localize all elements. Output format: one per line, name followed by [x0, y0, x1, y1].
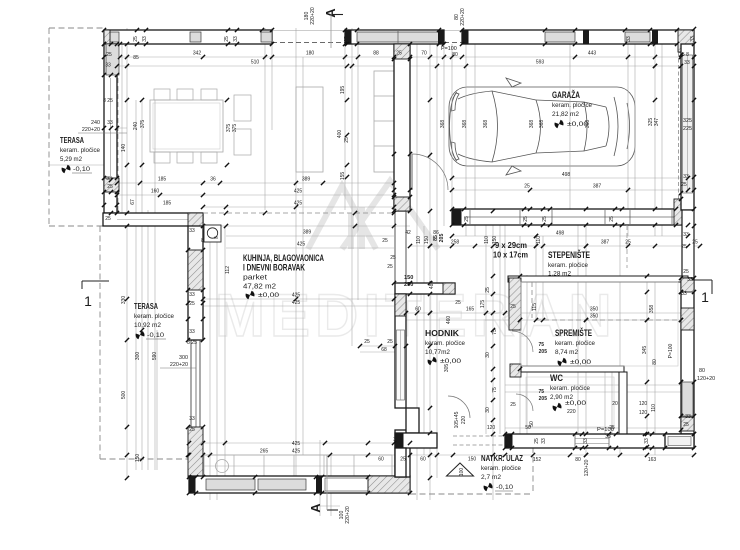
wc top wall	[521, 366, 624, 372]
svg-text:keram. pločice: keram. pločice	[425, 340, 465, 347]
svg-text:150: 150	[468, 457, 477, 463]
svg-text:HODNIK: HODNIK	[425, 328, 460, 338]
svg-text:25: 25	[224, 36, 230, 42]
svg-text:375: 375	[232, 124, 238, 133]
svg-text:25: 25	[189, 427, 195, 433]
svg-text:25: 25	[344, 36, 350, 42]
top wall segment 2 (window)	[345, 30, 444, 44]
svg-text:1,28 m2: 1,28 m2	[548, 271, 571, 278]
svg-text:110: 110	[651, 404, 657, 412]
svg-text:220+20: 220+20	[82, 127, 100, 133]
wc column	[510, 364, 521, 377]
wc door arc	[516, 394, 533, 411]
dashed terrace 1 outline	[49, 27, 104, 29]
svg-text:10,92 m2: 10,92 m2	[134, 322, 161, 329]
svg-text:25: 25	[692, 240, 698, 246]
svg-text:TERASA: TERASA	[60, 136, 84, 145]
sideboard	[296, 87, 323, 172]
svg-text:180: 180	[306, 51, 315, 57]
left wall lower hatched column	[188, 427, 203, 478]
dashed wall inner left	[117, 30, 119, 212]
svg-text:115: 115	[532, 303, 538, 311]
svg-text:keram. pločice: keram. pločice	[548, 262, 588, 269]
left exterior wall	[104, 44, 117, 213]
svg-text:25: 25	[510, 402, 516, 408]
svg-text:keram. pločice: keram. pločice	[60, 147, 100, 154]
garage bottom wall	[452, 209, 688, 225]
svg-text:110: 110	[536, 236, 542, 244]
dashed porch outline	[532, 447, 534, 494]
svg-text:110: 110	[484, 236, 490, 244]
svg-text:8 25: 8 25	[103, 98, 113, 104]
spremiste door arc	[512, 331, 533, 352]
door arc garage-hall	[411, 154, 413, 190]
svg-text:25: 25	[364, 339, 370, 345]
middle wall upper	[394, 44, 410, 211]
svg-text:25: 25	[609, 216, 615, 222]
svg-text:25: 25	[133, 36, 139, 42]
svg-text:220+20: 220+20	[460, 8, 466, 26]
svg-text:25: 25	[106, 52, 112, 58]
svg-text:±0,00: ±0,00	[440, 358, 461, 365]
svg-text:342: 342	[193, 51, 202, 57]
svg-text:70: 70	[421, 51, 427, 57]
svg-text:590: 590	[152, 352, 158, 361]
svg-text:150: 150	[424, 236, 430, 245]
mid lower wall	[395, 294, 406, 408]
car top view	[449, 78, 635, 175]
svg-text:33: 33	[189, 292, 195, 298]
svg-text:80: 80	[452, 52, 458, 58]
top-right corner column	[678, 30, 694, 52]
svg-text:25: 25	[390, 255, 396, 261]
svg-text:425: 425	[294, 189, 303, 195]
svg-text:75: 75	[538, 342, 544, 348]
svg-text:60: 60	[378, 457, 384, 463]
svg-text:21,82 m2: 21,82 m2	[552, 111, 579, 118]
svg-text:25: 25	[524, 184, 530, 190]
watermark logo	[308, 181, 438, 249]
svg-text:387: 387	[601, 240, 610, 246]
svg-text:±0,00: ±0,00	[570, 359, 591, 366]
dashed step line	[203, 212, 394, 214]
svg-text:25: 25	[510, 304, 516, 310]
svg-text:50: 50	[529, 421, 535, 427]
svg-text:593: 593	[536, 60, 545, 66]
svg-text:60: 60	[420, 457, 426, 463]
svg-text:80: 80	[699, 368, 705, 374]
right exterior wall (garage)	[681, 44, 694, 210]
svg-text:300: 300	[135, 352, 141, 361]
level symbol	[553, 118, 565, 130]
svg-text:keram. pločice: keram. pločice	[134, 313, 174, 320]
svg-text:425: 425	[297, 242, 306, 248]
svg-text:68: 68	[381, 347, 387, 353]
spremiste inner line	[521, 282, 678, 366]
svg-text:I DNEVNI BORAVAK: I DNEVNI BORAVAK	[243, 263, 305, 273]
kitchen pass opening thin	[394, 211, 396, 283]
svg-text:33: 33	[189, 416, 195, 422]
svg-text:9 x 29cm: 9 x 29cm	[495, 241, 527, 250]
svg-text:160: 160	[151, 189, 160, 195]
svg-text:460: 460	[446, 316, 452, 325]
level symbol	[244, 289, 256, 301]
level symbol	[60, 163, 72, 175]
svg-text:120: 120	[487, 425, 496, 431]
right wall stair segment	[682, 210, 694, 278]
wc right wall	[619, 372, 627, 434]
garage top wall	[462, 30, 694, 44]
svg-text:120+20: 120+20	[697, 376, 715, 382]
svg-text:110: 110	[416, 236, 422, 244]
svg-text:80: 80	[575, 457, 581, 463]
bottom wall right block	[368, 476, 410, 493]
svg-text:STEPENIŠTE: STEPENIŠTE	[548, 249, 590, 260]
svg-text:265: 265	[260, 449, 269, 455]
svg-text:300: 300	[179, 355, 188, 361]
svg-text:165: 165	[466, 307, 475, 313]
svg-text:400: 400	[337, 130, 343, 139]
level symbol	[556, 356, 568, 368]
svg-text:25: 25	[625, 240, 631, 246]
svg-text:33: 33	[316, 482, 322, 488]
entrance triangle	[447, 463, 474, 476]
hall bottom wall piece	[395, 433, 437, 448]
kitchen counter south	[204, 455, 392, 476]
svg-text:75: 75	[492, 329, 498, 335]
svg-text:33: 33	[685, 414, 691, 420]
svg-text:105+45: 105+45	[454, 411, 460, 428]
svg-text:75: 75	[538, 389, 544, 395]
right exterior wall lower	[681, 278, 694, 434]
step wall horizontal	[103, 213, 203, 226]
svg-text:330: 330	[121, 296, 127, 305]
sliding door thin lines	[190, 340, 192, 427]
svg-text:425: 425	[292, 300, 301, 306]
top-left corner column	[104, 30, 110, 44]
svg-text:250: 250	[404, 282, 413, 288]
bottom right riser wall	[395, 430, 410, 477]
svg-text:25: 25	[107, 184, 113, 190]
svg-text:425: 425	[292, 293, 301, 299]
svg-text:120: 120	[639, 410, 648, 416]
riser to bottom wall	[395, 448, 406, 477]
svg-text:P=100: P=100	[441, 46, 457, 52]
svg-text:±0,00: ±0,00	[567, 121, 588, 128]
svg-text:480: 480	[429, 281, 435, 290]
svg-text:33: 33	[690, 36, 696, 42]
bottom wall opening thin	[325, 478, 368, 491]
svg-text:389: 389	[303, 230, 312, 236]
svg-text:SPREMIŠTE: SPREMIŠTE	[555, 327, 592, 338]
dashed entry gap	[453, 435, 505, 437]
level symbol	[134, 329, 146, 341]
svg-text:NATKR. ULAZ: NATKR. ULAZ	[481, 453, 523, 463]
level symbol	[551, 401, 563, 413]
svg-text:150: 150	[135, 454, 141, 463]
svg-text:33: 33	[583, 438, 589, 444]
svg-text:120+20: 120+20	[584, 459, 590, 476]
svg-text:75: 75	[492, 387, 498, 393]
svg-text:33: 33	[106, 176, 112, 182]
svg-text:368: 368	[440, 120, 446, 129]
dashed opening top 2	[444, 42, 462, 44]
svg-text:368: 368	[539, 120, 545, 129]
svg-text:33: 33	[626, 36, 632, 42]
svg-text:25: 25	[485, 287, 491, 293]
svg-text:33: 33	[644, 438, 650, 444]
svg-text:358: 358	[649, 305, 655, 314]
svg-text:GARAŽA: GARAŽA	[552, 89, 580, 100]
svg-text:33: 33	[142, 36, 148, 42]
svg-text:425: 425	[292, 449, 301, 455]
svg-text:220+20: 220+20	[170, 362, 188, 368]
svg-text:33: 33	[683, 232, 689, 238]
svg-text:387: 387	[593, 184, 602, 190]
svg-text:25: 25	[683, 422, 689, 428]
svg-text:500: 500	[121, 391, 127, 400]
svg-text:25: 25	[681, 182, 687, 188]
svg-text:33: 33	[189, 228, 195, 234]
svg-text:20: 20	[612, 401, 618, 407]
stair left column	[509, 278, 521, 330]
svg-text:205: 205	[439, 234, 445, 243]
svg-text:425: 425	[292, 441, 301, 447]
svg-text:25: 25	[387, 264, 393, 270]
section marker 1 left	[82, 280, 109, 282]
svg-text:30: 30	[485, 407, 491, 413]
svg-text:175: 175	[480, 300, 486, 309]
svg-text:25: 25	[189, 482, 195, 488]
level symbol	[482, 481, 494, 493]
svg-text:keram. pločice: keram. pločice	[481, 465, 521, 472]
svg-text:TERASA: TERASA	[134, 302, 158, 311]
svg-text:510: 510	[251, 60, 260, 66]
svg-text:42: 42	[405, 230, 411, 236]
svg-text:33: 33	[605, 434, 611, 440]
svg-text:A: A	[323, 8, 338, 18]
svg-text:33: 33	[107, 120, 113, 126]
entry door arc	[448, 396, 470, 418]
svg-text:keram. pločice: keram. pločice	[555, 340, 595, 347]
svg-text:33: 33	[541, 438, 547, 444]
svg-text:100: 100	[459, 468, 465, 477]
svg-text:150: 150	[404, 275, 413, 281]
kitchen counter along wall	[374, 71, 394, 172]
section line A top	[330, 15, 332, 49]
svg-text:350: 350	[590, 307, 599, 313]
svg-text:P=100: P=100	[668, 343, 674, 358]
svg-text:±0,00: ±0,00	[258, 292, 279, 299]
svg-text:30: 30	[485, 352, 491, 358]
svg-text:195: 195	[340, 86, 346, 95]
bottom wall right section	[505, 434, 694, 448]
svg-text:67: 67	[130, 199, 136, 205]
svg-text:parket: parket	[243, 273, 268, 282]
svg-text:88: 88	[373, 51, 379, 57]
svg-text:1: 1	[84, 293, 92, 309]
kitchen wall band	[395, 283, 455, 294]
right wall hatch low	[681, 417, 694, 431]
svg-text:368: 368	[462, 120, 468, 129]
svg-text:1: 1	[701, 289, 709, 305]
svg-text:368: 368	[483, 120, 489, 129]
svg-text:112: 112	[225, 266, 231, 274]
dashed stair vertical	[626, 225, 628, 268]
ventilation fixture	[204, 225, 221, 242]
svg-text:425: 425	[294, 201, 303, 207]
dashed terrace 2 outline	[99, 226, 101, 459]
chairs around table	[154, 89, 170, 100]
svg-text:keram. pločice: keram. pločice	[550, 385, 590, 392]
svg-text:-0,10: -0,10	[147, 332, 164, 339]
bottom wall	[189, 476, 410, 493]
svg-text:25: 25	[189, 301, 195, 307]
svg-text:498: 498	[556, 231, 565, 237]
svg-text:345: 345	[642, 346, 648, 355]
svg-text:85: 85	[133, 55, 139, 61]
svg-text:25: 25	[464, 216, 470, 222]
svg-text:33: 33	[681, 291, 687, 297]
svg-text:25: 25	[400, 457, 406, 463]
svg-text:240: 240	[133, 122, 139, 131]
dashed garage door line	[678, 52, 680, 206]
dimension ticks	[102, 28, 106, 32]
svg-text:80: 80	[652, 359, 658, 365]
svg-text:498: 498	[562, 172, 571, 178]
svg-text:keram. pločice: keram. pločice	[552, 102, 592, 109]
svg-text:347: 347	[654, 118, 660, 127]
svg-text:10 x 17cm: 10 x 17cm	[493, 251, 528, 260]
sink	[216, 460, 229, 473]
svg-text:2,7 m2: 2,7 m2	[481, 474, 501, 481]
svg-text:60: 60	[415, 307, 421, 313]
right wall hatch mid	[681, 308, 694, 330]
dashed spremiste line	[536, 319, 680, 321]
svg-text:152: 152	[533, 457, 542, 463]
svg-text:185: 185	[163, 201, 172, 207]
left wall column b	[104, 178, 119, 192]
svg-text:33: 33	[462, 36, 468, 42]
svg-text:P=100: P=100	[597, 427, 614, 433]
svg-text:47,82 m2: 47,82 m2	[243, 282, 276, 291]
svg-text:225: 225	[683, 126, 692, 132]
svg-text:±0,00: ±0,00	[565, 400, 586, 407]
svg-text:A: A	[308, 503, 323, 513]
svg-text:33: 33	[189, 329, 195, 335]
svg-text:25: 25	[344, 137, 350, 143]
svg-text:240: 240	[91, 120, 100, 126]
dashed spremiste vertical	[531, 282, 533, 318]
jog wall piece	[406, 408, 419, 433]
svg-text:350: 350	[590, 314, 599, 320]
svg-text:25: 25	[681, 244, 687, 250]
top wall segment 1	[104, 30, 272, 44]
svg-text:25: 25	[683, 269, 689, 275]
svg-text:5,29 m2: 5,29 m2	[60, 156, 82, 163]
level symbol	[426, 355, 438, 367]
svg-text:25: 25	[387, 339, 393, 345]
svg-text:163: 163	[648, 457, 657, 463]
wc inner line	[526, 377, 614, 427]
svg-text:368: 368	[529, 120, 535, 129]
svg-text:25 8: 25 8	[679, 52, 689, 58]
svg-text:25: 25	[396, 51, 402, 57]
garage right corner block	[674, 199, 694, 225]
svg-text:33: 33	[683, 174, 689, 180]
svg-text:25: 25	[455, 300, 461, 306]
svg-text:33: 33	[233, 36, 239, 42]
svg-text:25: 25	[542, 216, 548, 222]
svg-text:220: 220	[461, 416, 467, 425]
bottom right window opening	[575, 435, 609, 448]
stair room top wall	[508, 276, 688, 282]
svg-text:325: 325	[683, 118, 692, 124]
section line A bottom	[326, 455, 328, 510]
dimension grid thin lines	[104, 56, 694, 58]
svg-text:8,74 m2: 8,74 m2	[555, 349, 578, 356]
svg-text:33: 33	[105, 63, 111, 69]
bottom right corner column	[665, 434, 694, 448]
svg-text:8 25: 8 25	[187, 340, 197, 346]
left wall column a	[106, 44, 119, 75]
svg-text:120: 120	[639, 401, 648, 407]
svg-text:90: 90	[214, 236, 218, 240]
svg-text:-0,10: -0,10	[496, 484, 513, 491]
svg-text:25: 25	[523, 216, 529, 222]
dashed opening top 1	[272, 42, 345, 44]
svg-text:-0,10: -0,10	[73, 166, 90, 173]
svg-text:25: 25	[105, 216, 111, 222]
svg-text:185: 185	[158, 177, 167, 183]
svg-text:220+20: 220+20	[310, 7, 316, 25]
left wall lower (x188)	[188, 226, 203, 340]
svg-text:258: 258	[451, 240, 460, 246]
svg-text:220+20: 220+20	[345, 506, 351, 524]
svg-text:25: 25	[382, 238, 388, 244]
dining table	[150, 100, 223, 152]
svg-text:33: 33	[393, 437, 399, 443]
svg-text:220: 220	[567, 409, 576, 415]
svg-text:KUHINJA, BLAGOVAONICA: KUHINJA, BLAGOVAONICA	[243, 253, 324, 263]
svg-text:375: 375	[140, 120, 146, 129]
svg-text:WC: WC	[550, 373, 563, 383]
svg-text:389: 389	[302, 177, 311, 183]
svg-text:33: 33	[684, 60, 690, 66]
right wall window	[682, 382, 693, 416]
svg-text:140: 140	[121, 144, 127, 153]
svg-text:443: 443	[588, 51, 597, 57]
svg-text:10,77m2: 10,77m2	[425, 349, 450, 356]
svg-text:205: 205	[539, 349, 548, 355]
section marker 1 right	[692, 279, 712, 281]
svg-text:25: 25	[534, 438, 540, 444]
svg-text:36: 36	[210, 177, 216, 183]
svg-text:205: 205	[539, 396, 548, 402]
svg-text:155: 155	[340, 172, 346, 181]
